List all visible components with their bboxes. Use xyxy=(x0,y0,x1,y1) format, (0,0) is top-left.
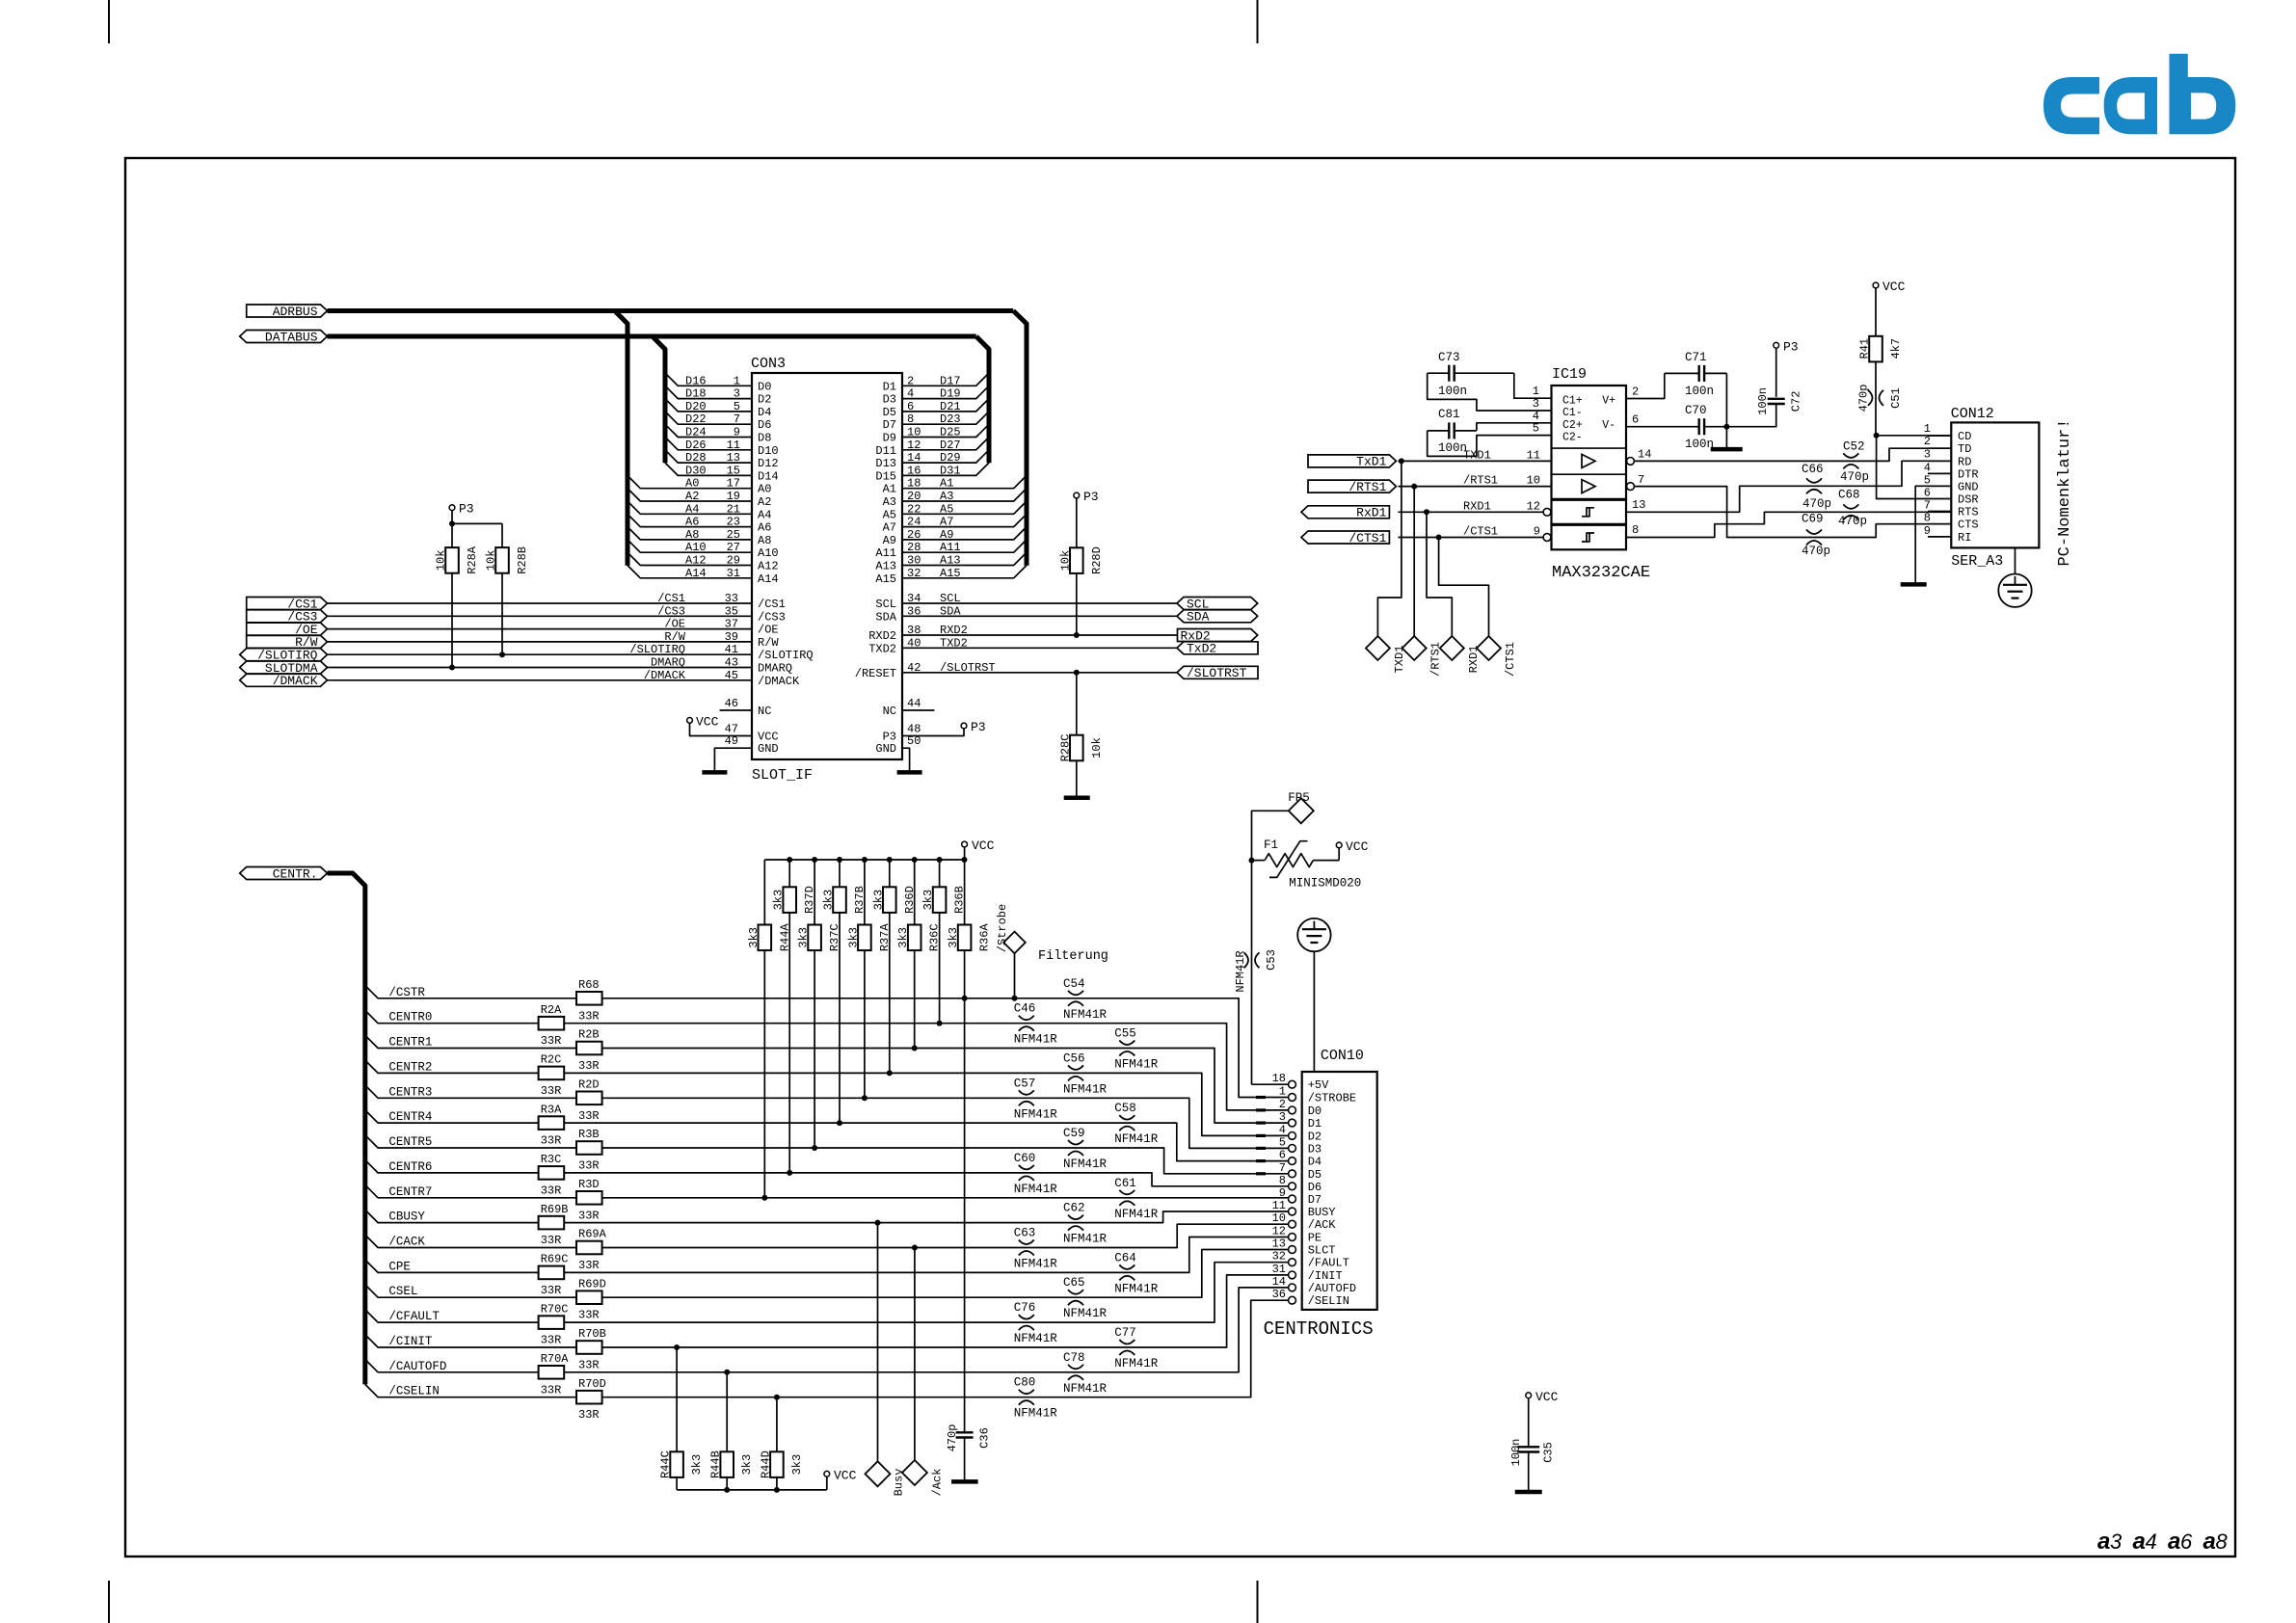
net diamond FP5 xyxy=(1252,791,1314,861)
svg-text:1: 1 xyxy=(734,374,740,387)
svg-text:A2: A2 xyxy=(758,495,771,509)
wire /CFAULT net xyxy=(365,1263,1289,1323)
svg-text:CSEL: CSEL xyxy=(388,1285,417,1298)
svg-text:33R: 33R xyxy=(541,1284,562,1297)
svg-text:D14: D14 xyxy=(758,469,779,483)
wire D27 pin 12 xyxy=(902,438,989,452)
wire VCC pull-up rail xyxy=(764,857,967,863)
net tag TxD2 xyxy=(1177,642,1258,656)
svg-text:C76: C76 xyxy=(1014,1301,1036,1315)
resistor R69A 33R xyxy=(576,1228,607,1272)
svg-text:D20: D20 xyxy=(685,400,707,413)
svg-text:33R: 33R xyxy=(578,1259,600,1272)
svg-text:11: 11 xyxy=(727,439,740,452)
svg-text:A7: A7 xyxy=(940,516,953,529)
svg-text:33R: 33R xyxy=(541,1184,562,1197)
svg-text:A1: A1 xyxy=(883,483,896,496)
svg-text:D15: D15 xyxy=(875,469,896,483)
svg-text:18: 18 xyxy=(1272,1072,1286,1085)
svg-text:A13: A13 xyxy=(875,560,896,573)
junction ticks on CON10 data pins xyxy=(1256,1098,1266,1174)
svg-text:C58: C58 xyxy=(1114,1102,1136,1115)
svg-text:TD: TD xyxy=(1958,442,1971,456)
svg-text:a: a xyxy=(2168,1529,2180,1555)
capacitor C46 NFM41R xyxy=(1014,1002,1058,1047)
svg-text:RTS: RTS xyxy=(1958,506,1979,519)
svg-text:19: 19 xyxy=(727,490,740,503)
svg-text:D2: D2 xyxy=(758,393,771,407)
svg-text:R68: R68 xyxy=(578,978,600,992)
net diamond TXD1 xyxy=(1366,636,1406,673)
svg-text:8: 8 xyxy=(907,412,914,426)
svg-text:/SLOTIRQ: /SLOTIRQ xyxy=(758,649,814,662)
wire A14 pin 31 xyxy=(627,566,752,580)
svg-text:NC: NC xyxy=(758,705,771,718)
capacitor C52 470p xyxy=(1840,440,1869,485)
svg-text:D22: D22 xyxy=(685,412,707,426)
svg-text:C2+: C2+ xyxy=(1562,419,1583,432)
svg-text:32: 32 xyxy=(1272,1250,1286,1264)
svg-text:R3C: R3C xyxy=(541,1153,562,1166)
svg-text:D2: D2 xyxy=(1308,1130,1322,1143)
svg-text:13: 13 xyxy=(727,451,740,465)
resistor R28D 10k xyxy=(1058,546,1104,638)
svg-text:D5: D5 xyxy=(1308,1168,1322,1182)
svg-text:49: 49 xyxy=(725,734,738,748)
svg-text:D19: D19 xyxy=(940,387,961,401)
power P3 above R28D xyxy=(1074,490,1099,547)
svg-text:A10: A10 xyxy=(685,541,707,554)
wire CBUSY net xyxy=(365,1210,1289,1223)
wire /SLOTIRQ pin 41 xyxy=(328,643,753,656)
svg-text:33R: 33R xyxy=(578,1009,600,1023)
svg-text:/CAUTOFD: /CAUTOFD xyxy=(388,1360,446,1373)
wire A5 pin 22 xyxy=(902,501,1027,516)
net diamond /CTS1 xyxy=(1477,636,1517,677)
svg-text:28: 28 xyxy=(907,541,921,554)
svg-text:R69B: R69B xyxy=(541,1203,569,1216)
svg-text:NFM41R: NFM41R xyxy=(1063,1157,1108,1171)
resistor R3B 33R xyxy=(576,1128,602,1172)
power VCC at CON3 pin 47 xyxy=(687,714,752,735)
svg-text:C65: C65 xyxy=(1063,1276,1085,1290)
wire CENTR4 net xyxy=(365,1110,1289,1161)
svg-text:D21: D21 xyxy=(940,400,961,413)
svg-text:C2-: C2- xyxy=(1562,432,1583,444)
wire /CS1 pin 33 xyxy=(328,592,753,605)
resistor R2B 33R xyxy=(576,1028,602,1073)
svg-text:C81: C81 xyxy=(1438,408,1460,421)
svg-text:/CS3: /CS3 xyxy=(758,610,786,624)
svg-text:C80: C80 xyxy=(1014,1376,1036,1390)
net tag ADRBUS xyxy=(247,305,328,319)
svg-text:CENTRONICS: CENTRONICS xyxy=(1264,1318,1374,1340)
wire CSEL net xyxy=(365,1250,1289,1299)
svg-text:R2D: R2D xyxy=(578,1078,600,1092)
svg-text:10: 10 xyxy=(907,426,921,439)
svg-text:TXD1: TXD1 xyxy=(1463,448,1491,462)
power P3 above R28A/R28B xyxy=(449,502,502,527)
svg-text:D6: D6 xyxy=(1308,1181,1322,1194)
svg-text:21: 21 xyxy=(727,502,740,516)
svg-text:RxD1: RxD1 xyxy=(1356,506,1386,520)
svg-text:10k: 10k xyxy=(1058,550,1072,572)
svg-text:C56: C56 xyxy=(1063,1051,1085,1065)
svg-text:NFM41R: NFM41R xyxy=(1014,1407,1058,1421)
net tag DATABUS xyxy=(240,330,328,344)
svg-text:VCC: VCC xyxy=(1535,1390,1559,1404)
svg-text:42: 42 xyxy=(907,661,921,675)
svg-text:/STROBE: /STROBE xyxy=(1308,1092,1356,1105)
svg-text:22: 22 xyxy=(907,502,921,516)
net tag SCL xyxy=(1177,597,1258,611)
svg-text:VCC: VCC xyxy=(972,838,995,853)
svg-text:/FAULT: /FAULT xyxy=(1308,1257,1349,1270)
svg-text:A6: A6 xyxy=(685,516,699,529)
wire SCL pin 34 xyxy=(902,592,1177,605)
svg-text:C68: C68 xyxy=(1838,489,1860,502)
wire A11 pin 28 xyxy=(902,540,1027,554)
svg-text:12: 12 xyxy=(907,439,921,452)
svg-text:D9: D9 xyxy=(883,432,896,445)
svg-text:A9: A9 xyxy=(883,534,896,547)
resistor R68 33R xyxy=(576,978,602,1023)
wire R1IN from CON12 pin 3 xyxy=(1626,447,1951,512)
svg-text:CENTR4: CENTR4 xyxy=(388,1110,432,1124)
svg-text:TXD2: TXD2 xyxy=(940,636,968,650)
svg-text:NFM41R: NFM41R xyxy=(1063,1233,1108,1246)
net tag /CS3 xyxy=(247,610,328,625)
svg-text:3k3: 3k3 xyxy=(772,890,786,911)
svg-text:20: 20 xyxy=(907,490,921,503)
svg-text:100n: 100n xyxy=(1756,387,1770,415)
ground below R28C xyxy=(1064,796,1090,801)
wire D31 pin 16 xyxy=(902,463,989,477)
svg-text:D18: D18 xyxy=(685,387,707,401)
svg-text:/DMACK: /DMACK xyxy=(273,674,318,688)
svg-text:35: 35 xyxy=(725,604,738,618)
svg-text:SCL: SCL xyxy=(875,598,896,611)
svg-text:10: 10 xyxy=(1527,474,1540,488)
svg-text:/CS1: /CS1 xyxy=(657,592,685,605)
svg-text:6: 6 xyxy=(1279,1149,1286,1162)
svg-text:MAX3232CAE: MAX3232CAE xyxy=(1552,564,1650,582)
capacitor C65 NFM41R xyxy=(1063,1276,1108,1320)
resistor R44A 3k3 xyxy=(747,860,792,1201)
svg-text:/SLOTRST: /SLOTRST xyxy=(940,661,996,675)
wire Busy net xyxy=(875,1220,881,1462)
svg-text:16: 16 xyxy=(907,464,921,477)
svg-text:A3: A3 xyxy=(883,495,896,509)
svg-text:36: 36 xyxy=(1272,1288,1286,1301)
connector CON12 (SER_A3) xyxy=(1924,406,2040,570)
resistor R37B 3k3 xyxy=(822,860,868,1126)
resistor R69C 33R xyxy=(539,1253,569,1297)
svg-text:A1: A1 xyxy=(940,477,953,491)
label Filterung xyxy=(1038,949,1108,964)
svg-text:C78: C78 xyxy=(1063,1351,1085,1365)
svg-text:CPE: CPE xyxy=(388,1260,411,1273)
svg-text:33R: 33R xyxy=(541,1084,562,1098)
svg-text:C77: C77 xyxy=(1114,1326,1136,1340)
wire CENTR2 net xyxy=(365,1060,1289,1135)
svg-text:A5: A5 xyxy=(883,508,896,521)
wire R2IN from CON12 pin 7 xyxy=(1626,512,1951,537)
svg-text:6: 6 xyxy=(1924,487,1931,500)
svg-text:SDA: SDA xyxy=(875,610,896,624)
svg-text:C63: C63 xyxy=(1014,1227,1036,1240)
net diamond Busy xyxy=(866,1461,906,1496)
svg-text:A11: A11 xyxy=(940,541,961,554)
svg-text:R44D: R44D xyxy=(759,1450,772,1478)
net diamond /Strobe xyxy=(996,904,1026,1001)
svg-text:V-: V- xyxy=(1602,419,1615,432)
svg-text:a: a xyxy=(2203,1529,2216,1555)
capacitor C78 NFM41R xyxy=(1063,1351,1108,1396)
power VCC above pull-up rail xyxy=(962,838,995,860)
svg-text:NFM41R: NFM41R xyxy=(1063,1307,1108,1320)
svg-text:3k3: 3k3 xyxy=(871,890,885,911)
svg-text:Filterung: Filterung xyxy=(1038,949,1108,964)
capacitor C59 NFM41R xyxy=(1063,1127,1108,1171)
svg-text:27: 27 xyxy=(727,541,740,554)
capacitor C68 470p xyxy=(1838,489,1867,529)
svg-text:34: 34 xyxy=(907,592,921,605)
svg-text:CENTR1: CENTR1 xyxy=(388,1036,432,1050)
svg-text:43: 43 xyxy=(725,656,738,670)
svg-text:NFM41R: NFM41R xyxy=(1114,1132,1159,1146)
svg-text:A14: A14 xyxy=(685,567,707,580)
wire D17 pin 2 xyxy=(902,373,989,387)
wire A7 pin 24 xyxy=(902,514,1027,528)
svg-text:33R: 33R xyxy=(578,1159,600,1173)
svg-text:470p: 470p xyxy=(1840,470,1869,484)
ground at CON3 pin 49 xyxy=(702,734,752,772)
svg-text:SDA: SDA xyxy=(1187,610,1210,625)
wire /SLOTRST pin 42 xyxy=(902,661,1177,676)
svg-text:/CFAULT: /CFAULT xyxy=(388,1310,440,1323)
svg-text:31: 31 xyxy=(1272,1263,1286,1276)
wire D19 pin 4 xyxy=(902,386,989,400)
svg-text:P3: P3 xyxy=(459,502,474,517)
svg-text:8: 8 xyxy=(1279,1174,1286,1187)
svg-text:2: 2 xyxy=(1924,435,1931,448)
svg-text:P3: P3 xyxy=(1783,339,1799,354)
capacitor C53 NFM41R xyxy=(1234,861,1278,1085)
capacitor C62 NFM41R xyxy=(1063,1202,1108,1246)
svg-text:33R: 33R xyxy=(541,1234,562,1247)
svg-text:33R: 33R xyxy=(578,1408,600,1422)
svg-text:12: 12 xyxy=(1527,499,1540,513)
svg-text:2: 2 xyxy=(1632,386,1639,399)
svg-text:100n: 100n xyxy=(1509,1439,1523,1467)
wire A9 pin 26 xyxy=(902,527,1027,542)
capacitor C56 NFM41R xyxy=(1063,1051,1108,1096)
svg-text:A15: A15 xyxy=(940,567,961,580)
svg-text:9: 9 xyxy=(1534,525,1540,539)
net tag RxD2 xyxy=(1178,628,1258,643)
svg-text:GND: GND xyxy=(758,742,779,756)
fuse F1 MINISMD020 xyxy=(1249,838,1362,891)
svg-text:PC-Nomenklatur!: PC-Nomenklatur! xyxy=(2056,418,2074,566)
svg-text:3k3: 3k3 xyxy=(790,1454,804,1476)
svg-text:15: 15 xyxy=(727,464,740,477)
svg-text:C1+: C1+ xyxy=(1562,394,1583,407)
svg-text:11: 11 xyxy=(1272,1199,1286,1212)
wire A8 pin 25 xyxy=(627,527,752,542)
wire A10 pin 27 xyxy=(627,540,752,554)
pin 44 NC xyxy=(902,697,934,710)
capacitor C76 NFM41R xyxy=(1014,1301,1058,1345)
capacitor C58 NFM41R xyxy=(1114,1102,1159,1146)
wire TXD1 to IC19 pin 11 xyxy=(1398,448,1551,464)
svg-text:F1: F1 xyxy=(1264,838,1278,852)
ground below C70 xyxy=(1711,447,1743,452)
capacitor C57 NFM41R xyxy=(1014,1077,1058,1121)
svg-text:17: 17 xyxy=(727,477,740,491)
wire D30 pin 15 xyxy=(665,463,752,477)
svg-text:A3: A3 xyxy=(940,490,953,503)
bus CENTR. xyxy=(328,873,365,1384)
svg-text:CENTR6: CENTR6 xyxy=(388,1160,432,1174)
svg-text:SER_A3: SER_A3 xyxy=(1951,553,2003,570)
svg-text:C53: C53 xyxy=(1265,949,1278,971)
svg-text:TxD1: TxD1 xyxy=(1356,455,1386,469)
protective earth at CON12 xyxy=(1998,547,2031,607)
power VCC right of F1 xyxy=(1336,839,1368,861)
svg-text:NFM41R: NFM41R xyxy=(1014,1332,1058,1345)
wire A13 pin 30 xyxy=(902,552,1027,567)
svg-text:P3: P3 xyxy=(971,720,986,734)
svg-text:RXD2: RXD2 xyxy=(868,629,896,643)
resistor R70C 33R xyxy=(539,1302,569,1346)
svg-text:100n: 100n xyxy=(1685,438,1714,451)
svg-text:VCC: VCC xyxy=(696,714,719,729)
capacitor C69 470p xyxy=(1802,513,1830,559)
svg-text:A2: A2 xyxy=(685,490,699,503)
svg-text:44: 44 xyxy=(907,697,921,710)
resistor R37C 3k3 xyxy=(797,860,842,1151)
svg-text:C57: C57 xyxy=(1014,1077,1036,1090)
resistor R2D 33R xyxy=(576,1078,602,1123)
svg-text:D7: D7 xyxy=(883,418,896,432)
capacitor C66 470p xyxy=(1802,463,1831,511)
resistor R70A 33R xyxy=(539,1352,570,1397)
svg-text:R70D: R70D xyxy=(578,1377,606,1391)
svg-text:3k3: 3k3 xyxy=(846,927,860,948)
resistor R3A 33R xyxy=(539,1103,565,1147)
capacitor C35 100n xyxy=(1509,1439,1556,1492)
wire CD to CON12 pin 1 xyxy=(1877,422,1952,436)
svg-text:A11: A11 xyxy=(875,546,896,560)
wire A1 pin 18 xyxy=(902,475,1027,490)
svg-text:33R: 33R xyxy=(578,1209,600,1222)
svg-text:/OE: /OE xyxy=(664,618,685,631)
ground at CON3 pin 50 xyxy=(897,734,922,772)
svg-text:NFM41R: NFM41R xyxy=(1014,1183,1058,1196)
svg-text:/SELIN: /SELIN xyxy=(1308,1294,1349,1308)
net tag /DMACK xyxy=(240,674,328,688)
wire CENTR7 net xyxy=(365,1185,1289,1199)
svg-text:33: 33 xyxy=(725,592,738,605)
wire /CSTR net xyxy=(365,986,1289,1098)
wire A12 pin 29 xyxy=(627,552,752,567)
net diamond RXD1 xyxy=(1440,636,1481,673)
svg-text:6: 6 xyxy=(907,400,914,413)
svg-text:/CS3: /CS3 xyxy=(657,604,685,618)
svg-text:C66: C66 xyxy=(1802,463,1824,476)
svg-text:R/W: R/W xyxy=(758,636,779,650)
svg-text:R3D: R3D xyxy=(578,1178,600,1191)
svg-text:/RTS1: /RTS1 xyxy=(1463,474,1498,488)
svg-text:36: 36 xyxy=(907,604,921,618)
svg-text:MINISMD020: MINISMD020 xyxy=(1289,877,1361,891)
svg-text:33R: 33R xyxy=(578,1109,600,1123)
svg-text:C54: C54 xyxy=(1063,977,1085,991)
wire /OE pin 37 xyxy=(328,618,753,631)
cab logo xyxy=(2043,54,2235,135)
svg-text:32: 32 xyxy=(907,567,921,580)
svg-text:C51: C51 xyxy=(1889,387,1903,409)
svg-text:470p: 470p xyxy=(1802,545,1830,558)
svg-text:9: 9 xyxy=(1279,1186,1286,1200)
svg-text:C73: C73 xyxy=(1438,351,1460,364)
svg-text:R3A: R3A xyxy=(541,1103,562,1116)
svg-text:4k7: 4k7 xyxy=(1889,338,1903,359)
svg-text:13: 13 xyxy=(1272,1237,1286,1251)
svg-text:R70B: R70B xyxy=(578,1327,606,1341)
svg-text:100n: 100n xyxy=(1685,385,1714,398)
label a3 a4 a6 a8 xyxy=(2097,1529,2229,1555)
svg-text:R69A: R69A xyxy=(578,1228,607,1241)
svg-text:4: 4 xyxy=(907,387,914,401)
capacitor C55 NFM41R xyxy=(1114,1027,1159,1072)
svg-text:18: 18 xyxy=(907,477,921,491)
wire R/W pin 39 xyxy=(328,630,753,644)
svg-text:A4: A4 xyxy=(685,502,699,516)
svg-text:3k3: 3k3 xyxy=(797,927,811,948)
svg-text:/CACK: /CACK xyxy=(388,1236,425,1249)
svg-text:R41: R41 xyxy=(1858,338,1872,359)
resistor R3D 33R xyxy=(576,1178,602,1222)
wire CENTR0 net xyxy=(365,1010,1289,1110)
svg-text:39: 39 xyxy=(725,630,738,644)
svg-text:R2A: R2A xyxy=(541,1003,562,1017)
net diamond /Ack xyxy=(902,1460,945,1496)
svg-text:R70A: R70A xyxy=(541,1352,570,1366)
wire T2OUT to CON12 pin 8 xyxy=(1632,487,1951,538)
svg-text:/CSTR: /CSTR xyxy=(388,986,425,999)
svg-text:NFM41R: NFM41R xyxy=(1114,1208,1159,1221)
svg-text:8: 8 xyxy=(2216,1530,2229,1554)
svg-text:SDA: SDA xyxy=(940,604,961,618)
svg-text:SLOT_IF: SLOT_IF xyxy=(752,767,813,784)
svg-text:470p: 470p xyxy=(1857,385,1871,412)
svg-text:470p: 470p xyxy=(946,1424,959,1452)
wire /CS3 pin 35 xyxy=(328,604,753,618)
svg-text:NFM41R: NFM41R xyxy=(1014,1033,1058,1047)
svg-text:/OE: /OE xyxy=(758,624,779,637)
svg-text:D3: D3 xyxy=(1308,1142,1322,1156)
capacitor C54 NFM41R xyxy=(1063,977,1108,1022)
capacitor C63 NFM41R xyxy=(1014,1227,1058,1271)
svg-text:R70C: R70C xyxy=(541,1302,569,1316)
wire /CTS1 to IC19 pin 9 xyxy=(1398,525,1543,541)
svg-text:3k3: 3k3 xyxy=(896,927,910,948)
wire D28 pin 13 xyxy=(665,450,752,465)
svg-text:/DMACK: /DMACK xyxy=(758,675,800,688)
svg-text:14: 14 xyxy=(1638,448,1651,462)
